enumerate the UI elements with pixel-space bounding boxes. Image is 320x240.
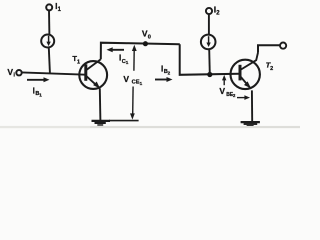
wire current source I2 to terminal: [208, 14, 210, 35]
svg-text:1: 1: [39, 93, 42, 98]
wire top rail step down to T2 base: [180, 44, 240, 75]
wire T1 collector to top rail: [101, 43, 180, 60]
wire current source I1 to base node: [49, 48, 50, 73]
current arrow IB2: [155, 77, 173, 82]
wire T1 emitter to ground: [99, 88, 102, 120]
svg-text:V: V: [7, 67, 13, 77]
svg-text:V: V: [123, 74, 129, 84]
label IC1: [119, 54, 129, 65]
label Vo: [142, 29, 151, 41]
current source I1: [41, 35, 54, 48]
ground T2: [241, 122, 260, 126]
current arrow IC1: [107, 47, 125, 52]
terminal Vi: [16, 70, 21, 75]
svg-text:CE: CE: [132, 79, 140, 85]
svg-text:1: 1: [126, 60, 129, 65]
label Vi: [7, 67, 15, 78]
label VCE1: [123, 74, 142, 86]
ground T1: [92, 121, 111, 125]
current source I2: [201, 35, 216, 50]
label VBE2: [219, 86, 236, 98]
svg-text:2: 2: [270, 66, 273, 72]
terminal I1: [46, 4, 52, 10]
page edge smudge (decorative): [0, 126, 300, 128]
wire T2 collector to output terminal: [258, 45, 280, 52]
svg-text:1: 1: [140, 81, 143, 86]
node Vo: [143, 41, 148, 46]
wire terminal I1 to current source: [48, 10, 50, 35]
svg-text:V: V: [219, 86, 225, 96]
label I2: [214, 5, 221, 17]
terminal I2: [206, 8, 212, 14]
wire Vi to T1 base: [22, 72, 86, 74]
junction node I2/base: [207, 72, 212, 77]
svg-text:1: 1: [77, 59, 80, 65]
svg-text:2: 2: [168, 70, 171, 75]
label IB2: [161, 64, 171, 75]
label T2: [266, 60, 274, 72]
label IB1: [33, 86, 43, 97]
voltage arrow VCE1: [130, 45, 137, 120]
svg-text:0: 0: [148, 35, 151, 41]
wire junction to current source I2: [208, 49, 211, 74]
label T1: [72, 54, 80, 66]
transistor T2: [231, 53, 260, 90]
terminal output: [280, 43, 286, 49]
label I1: [55, 1, 62, 13]
transistor T1: [79, 59, 107, 89]
voltage arrow VBE2: [222, 75, 250, 100]
wire T2 emitter to ground: [251, 90, 253, 121]
ground rail to VCE1 arrow: [109, 120, 139, 122]
current arrow IB1: [27, 77, 50, 82]
